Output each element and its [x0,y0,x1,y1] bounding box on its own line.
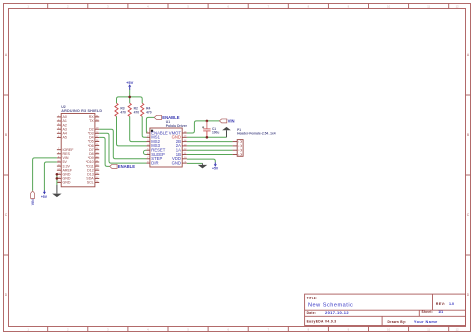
svg-text:100u: 100u [212,130,219,134]
svg-text:Drawn By:: Drawn By: [388,320,407,324]
net flag VIN (left, rotated) [31,191,35,205]
wire R2 to MS2 [130,116,147,141]
wire 2A to P1 pin 2 [187,145,233,147]
wire D2 to STEP [99,129,146,159]
connector P1 Header-Female-2.54_1x4 [237,128,276,156]
wire ENABLE flag to U1 ENABLE pin [146,117,154,133]
svg-text:A5: A5 [63,136,67,140]
U2 left pin stubs [57,117,61,183]
wire D3 to DIR [99,133,146,163]
resistor R2 470 [128,103,139,116]
wire 1B to P1 pin 4 [187,154,233,156]
svg-text:+5V: +5V [126,80,134,85]
svg-text:2017-10-12: 2017-10-12 [325,310,349,315]
svg-text:TX: TX [89,119,94,123]
junction at +5V rail [128,96,131,99]
svg-text:470: 470 [146,111,152,115]
net flag VIN (near C1) [219,118,234,123]
svg-text:1/1: 1/1 [438,310,443,314]
svg-text:Date:: Date: [307,311,317,315]
U1 right pin stubs [182,133,187,163]
svg-text:470: 470 [120,111,126,115]
ground (below U2) [52,185,61,197]
IC U2 ARDUINO R3 SHIELD [61,105,102,187]
junction at GND pin 1 [56,173,59,176]
svg-text:+5V: +5V [212,166,219,170]
ground (up arrow, near VIN) [222,127,231,137]
wire D4 to ENABLE flag [99,137,110,166]
U2 right pin stubs [95,117,99,183]
wire R3 to MS3 [117,116,147,145]
svg-text:ARDUINO R3 SHIELD: ARDUINO R3 SHIELD [61,109,102,113]
resistor R3 470 [115,103,126,116]
svg-text:GND: GND [63,181,71,185]
wire 2B to P1 pin 1 [187,141,233,143]
svg-text:REV:: REV: [436,302,446,306]
+5V power flag (top, above resistors) [126,80,134,90]
resistor R4 470 [141,103,152,116]
svg-text:VIN: VIN [228,118,235,123]
svg-text:VIN: VIN [31,199,35,205]
wire RESET-SLEEP bridge [143,150,146,154]
svg-text:EasyEDA V4.9.3: EasyEDA V4.9.3 [307,320,337,324]
svg-text:New Schematic: New Schematic [308,302,353,308]
op-amp U1 Pololu Driver (stepper driver IC) [150,120,188,167]
svg-text:TITLE:: TITLE: [307,296,318,300]
+5V power flag (below U2 5V pin) [41,190,48,199]
U2 pin numbers [57,115,99,183]
svg-text:1.0: 1.0 [449,302,454,306]
wire VMOT to VIN flag [187,121,220,133]
U1 pin names [151,130,181,165]
svg-text:Your Name: Your Name [414,320,438,324]
wire driver GND2 to ground [187,162,203,164]
svg-text:DIR: DIR [151,160,158,165]
U1 left pin stubs [147,133,150,163]
svg-text:Pololu Driver: Pololu Driver [166,124,188,128]
wire 1A to P1 pin 3 [187,149,233,151]
capacitor C1 100u [202,121,219,137]
net flag ENABLE (near U1) [154,115,180,120]
svg-text:Header-Female-2.54_1x4: Header-Female-2.54_1x4 [237,132,276,136]
wire VIN pin to VIN flag [33,158,57,191]
+5V power flag (near U1 VDD) [212,162,219,170]
svg-text:470: 470 [134,111,140,115]
junction at GND pin 2 [56,177,59,180]
svg-text:SCL: SCL [87,181,94,185]
svg-text:Sheet:: Sheet: [422,310,434,314]
P1 pin stubs [233,142,238,155]
U1 pin numbers [147,131,187,163]
wire resistor top rail [117,97,143,103]
wire driver GND to ground flag [187,136,227,138]
P1 pin numbers and sockets [238,142,240,157]
ground (near U1) [198,163,207,168]
wire R4 to MS1 [142,116,146,137]
svg-text:ENABLE: ENABLE [162,115,179,120]
U2 pin names [63,115,95,185]
junction at C1 bottom [206,136,209,139]
wire 5V pin to +5V flag [44,162,57,190]
wire +5V stem to resistor rail [129,90,131,97]
svg-text:+5V: +5V [41,195,48,199]
wire VDD to +5V flag [187,159,215,162]
junction at C1 top [206,120,209,123]
svg-text:ENABLE: ENABLE [118,164,135,169]
svg-text:GND: GND [172,160,181,165]
net flag ENABLE (near U2) [110,164,136,169]
wire U2 GND pins bus [56,174,58,185]
